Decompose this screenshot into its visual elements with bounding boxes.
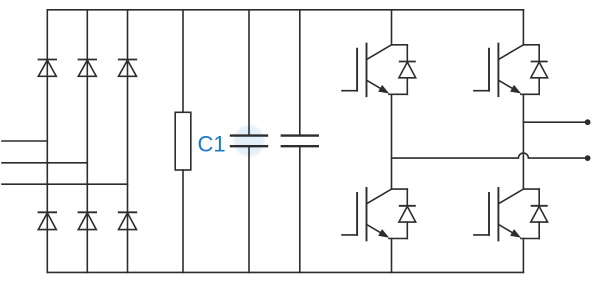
wire: C1 branch top <box>248 10 250 136</box>
wire: rectifier leg 2 <box>86 10 88 273</box>
wire: left leg midpoint run <box>391 94 393 189</box>
wire: resistor branch bottom <box>182 170 184 272</box>
transistor Q2 <box>474 44 539 97</box>
transistor Q4 <box>474 188 539 241</box>
wire: right leg emitter to bottom rail <box>522 239 524 273</box>
wire: C2 branch bottom <box>299 146 301 272</box>
transistor Q1 <box>342 44 407 97</box>
wire: C2 branch top <box>299 10 301 136</box>
wire: AC input phase L1 <box>2 140 47 142</box>
diode D5 (lower rectifier) <box>78 212 96 229</box>
highlight halo behind C1 <box>234 126 265 157</box>
diode D6 (lower rectifier) <box>119 212 137 229</box>
wire: negative DC bus (bottom rail) <box>47 271 523 273</box>
capacitor C1 <box>231 136 267 147</box>
wire: rectifier leg 1 <box>46 10 48 273</box>
diode D9 (freewheel of Q3) <box>399 189 416 238</box>
diode D8 (freewheel of Q2) <box>531 45 548 95</box>
wire: left leg collector drop <box>391 10 393 45</box>
wire: left leg emitter to bottom rail <box>391 239 393 273</box>
wire: positive DC bus (top rail) <box>47 9 523 11</box>
svg-text:C1: C1 <box>198 131 226 156</box>
wire: resistor branch top <box>182 10 184 113</box>
wire: rectifier leg 3 <box>127 10 129 273</box>
wire: right leg midpoint run <box>522 94 524 189</box>
diode D4 (lower rectifier) <box>38 212 56 229</box>
node: upper output terminal <box>585 119 591 125</box>
diode D3 (upper rectifier) <box>119 60 137 77</box>
diode D2 (upper rectifier) <box>78 60 96 77</box>
diode D1 (upper rectifier) <box>38 60 56 77</box>
wire: AC input phase L3 <box>2 183 128 185</box>
wire: upper output from right leg <box>523 121 585 123</box>
wire: lower output from left leg midpoint (with crossover hop) <box>392 153 586 158</box>
node: lower output terminal <box>585 155 591 161</box>
diode D10 (freewheel of Q4) <box>531 189 548 238</box>
capacitor C2 <box>282 136 318 147</box>
wire: C1 branch bottom <box>248 146 250 272</box>
wire: AC input phase L2 <box>2 162 87 164</box>
wire: right leg collector drop <box>522 10 524 45</box>
transistor Q3 <box>342 188 407 241</box>
resistor R1 (bleeder) <box>175 112 191 170</box>
diode D7 (freewheel of Q1) <box>399 45 416 95</box>
